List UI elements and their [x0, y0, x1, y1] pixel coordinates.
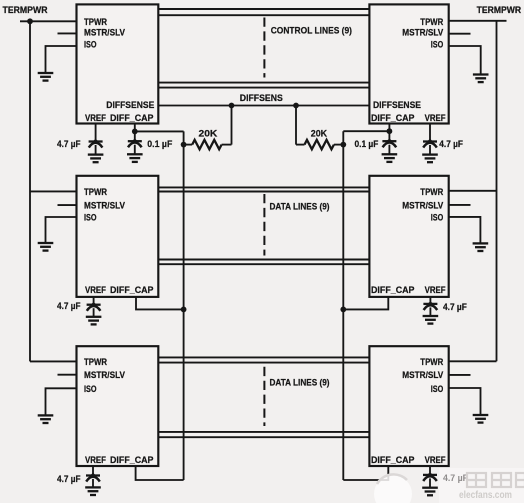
svg-text:ISO: ISO — [431, 40, 444, 50]
svg-text:0.1 µF: 0.1 µF — [147, 139, 172, 149]
svg-text:DIFF_CAP: DIFF_CAP — [110, 113, 154, 123]
svg-text:elecfans.com: elecfans.com — [459, 490, 512, 501]
svg-text:DATA LINES (9): DATA LINES (9) — [270, 378, 330, 388]
svg-text:CONTROL LINES (9): CONTROL LINES (9) — [271, 26, 352, 36]
svg-text:MSTR/SLV: MSTR/SLV — [402, 370, 443, 380]
svg-text:VREF: VREF — [85, 285, 106, 295]
svg-text:TPWR: TPWR — [84, 357, 107, 367]
svg-text:TPWR: TPWR — [84, 187, 107, 197]
svg-text:ISO: ISO — [84, 384, 97, 394]
svg-text:MSTR/SLV: MSTR/SLV — [402, 28, 443, 38]
svg-text:20K: 20K — [311, 129, 328, 139]
svg-text:TERMPWR: TERMPWR — [477, 5, 522, 15]
svg-text:VREF: VREF — [85, 455, 106, 465]
svg-text:ISO: ISO — [431, 384, 444, 394]
svg-text:ISO: ISO — [431, 212, 444, 222]
svg-text:4.7 µF: 4.7 µF — [443, 302, 467, 312]
svg-text:DIFFSENSE: DIFFSENSE — [106, 100, 154, 110]
svg-text:MSTR/SLV: MSTR/SLV — [84, 200, 125, 210]
svg-text:DIFF_CAP: DIFF_CAP — [110, 455, 154, 465]
svg-text:DATA LINES (9): DATA LINES (9) — [270, 201, 330, 211]
svg-text:DIFFSENSE: DIFFSENSE — [373, 100, 421, 110]
svg-text:ISO: ISO — [84, 212, 97, 222]
svg-text:DIFF_CAP: DIFF_CAP — [371, 455, 415, 465]
svg-text:VREF: VREF — [425, 113, 446, 123]
svg-text:4.7 µF: 4.7 µF — [443, 473, 468, 483]
svg-text:VREF: VREF — [425, 285, 446, 295]
svg-text:TPWR: TPWR — [420, 357, 443, 367]
svg-text:4.7 µF: 4.7 µF — [57, 301, 81, 311]
svg-text:MSTR/SLV: MSTR/SLV — [84, 28, 125, 38]
svg-text:DIFF_CAP: DIFF_CAP — [371, 113, 415, 123]
svg-text:DIFFSENS: DIFFSENS — [240, 93, 283, 103]
svg-text:MSTR/SLV: MSTR/SLV — [402, 200, 443, 210]
svg-text:4.7 µF: 4.7 µF — [57, 474, 81, 484]
svg-text:VREF: VREF — [85, 113, 106, 123]
svg-text:DIFF_CAP: DIFF_CAP — [110, 285, 154, 295]
svg-text:4.7 µF: 4.7 µF — [439, 139, 463, 149]
svg-text:MSTR/SLV: MSTR/SLV — [84, 370, 125, 380]
svg-text:0.1 µF: 0.1 µF — [355, 139, 379, 149]
svg-text:20K: 20K — [199, 129, 218, 139]
svg-text:TPWR: TPWR — [420, 187, 443, 197]
svg-text:DIFF_CAP: DIFF_CAP — [371, 285, 415, 295]
svg-text:4.7 µF: 4.7 µF — [57, 139, 81, 149]
svg-text:ISO: ISO — [84, 40, 97, 50]
svg-text:TPWR: TPWR — [84, 17, 107, 27]
svg-text:VREF: VREF — [425, 455, 446, 465]
svg-text:TERMPWR: TERMPWR — [3, 5, 48, 15]
svg-text:TPWR: TPWR — [420, 17, 443, 27]
